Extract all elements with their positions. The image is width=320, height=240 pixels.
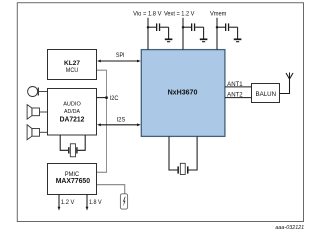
svg-text:KL27: KL27 <box>64 60 80 67</box>
svg-text:aaa-032121: aaa-032121 <box>275 225 304 231</box>
svg-text:AD/DA: AD/DA <box>64 109 80 115</box>
svg-text:MAX77650: MAX77650 <box>56 178 90 185</box>
svg-text:BALUN: BALUN <box>256 92 277 98</box>
svg-text:Vio = 1.8 V: Vio = 1.8 V <box>133 11 161 17</box>
svg-text:NxH3670: NxH3670 <box>168 88 198 97</box>
svg-text:SPI: SPI <box>116 53 125 59</box>
svg-text:Vmem: Vmem <box>210 11 227 17</box>
svg-text:ANT1: ANT1 <box>227 82 243 88</box>
svg-text:MCU: MCU <box>66 68 79 74</box>
svg-text:1.2 V: 1.2 V <box>61 200 75 206</box>
svg-text:Vext = 1.2 V: Vext = 1.2 V <box>164 11 195 17</box>
svg-text:1.8 V: 1.8 V <box>89 200 102 206</box>
svg-text:I2S: I2S <box>117 118 126 124</box>
svg-text:AUDIO: AUDIO <box>63 102 81 108</box>
svg-text:PMIC: PMIC <box>65 172 80 178</box>
svg-text:I2C: I2C <box>110 96 119 102</box>
svg-text:DA7212: DA7212 <box>60 117 85 124</box>
svg-text:ANT2: ANT2 <box>227 93 243 99</box>
